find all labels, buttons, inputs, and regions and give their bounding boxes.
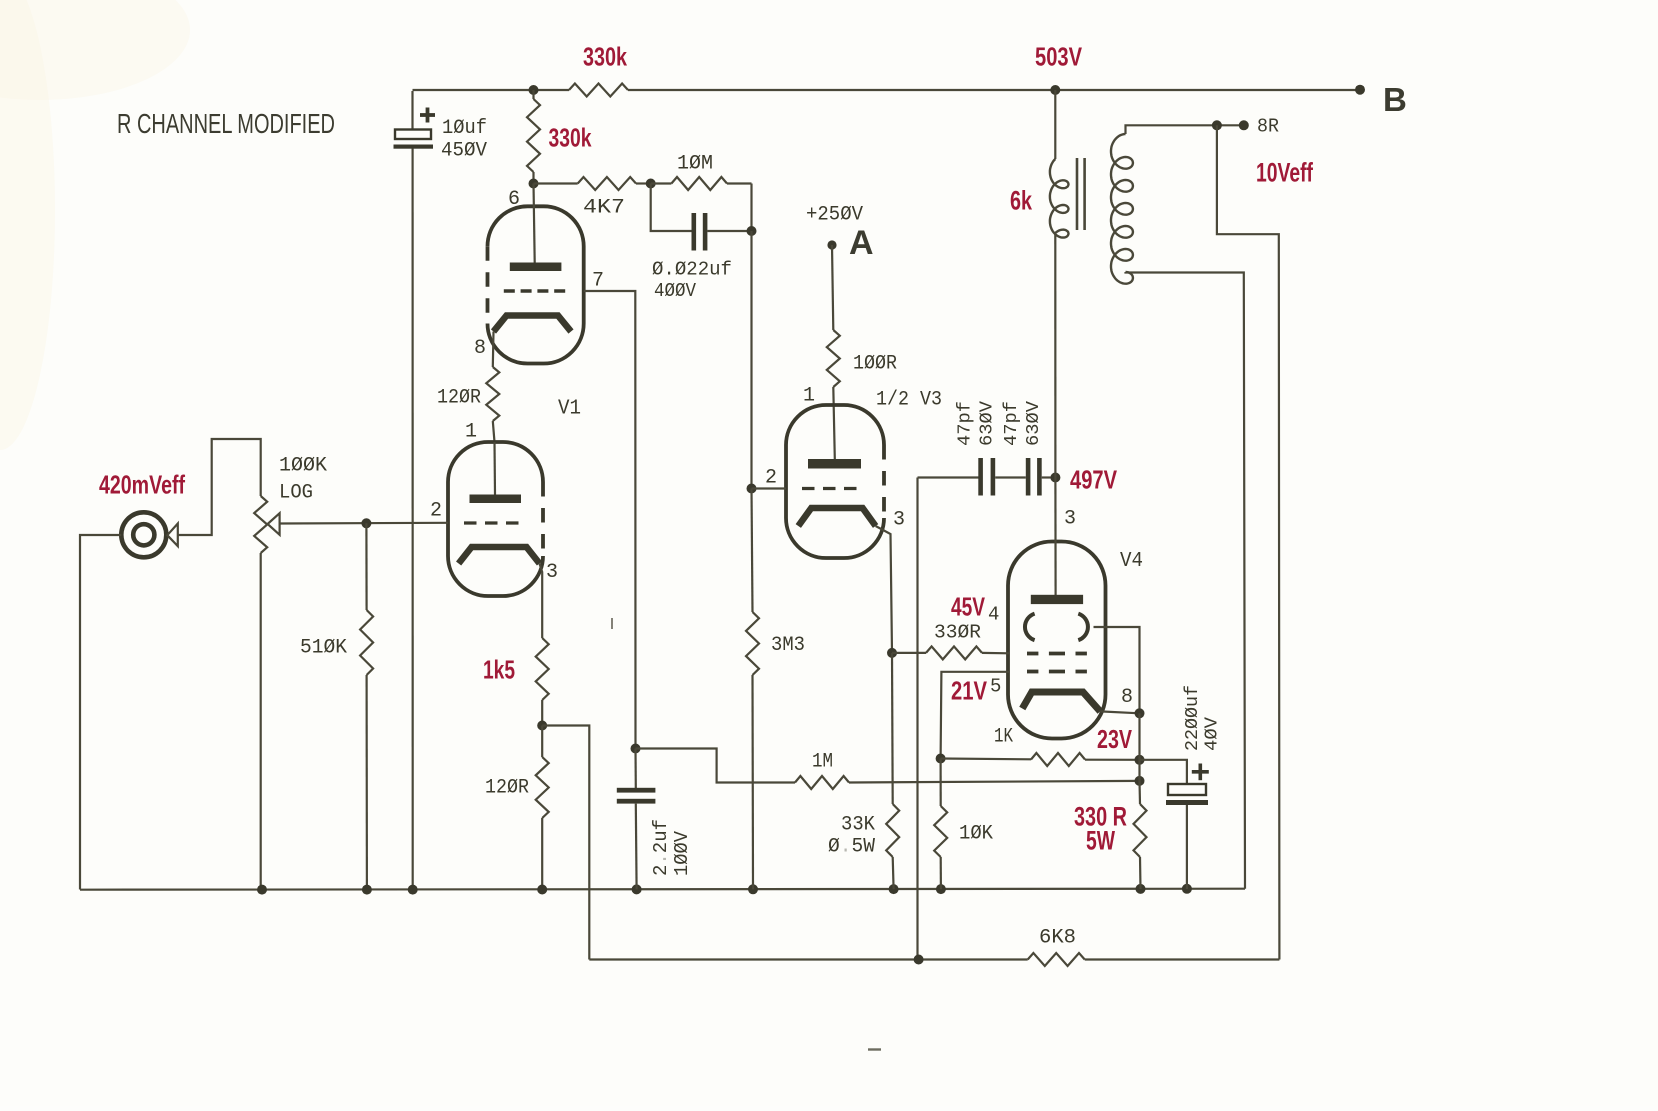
tube V1 lower triode envelope xyxy=(448,442,543,596)
svg-text:1Øuf: 1Øuf xyxy=(442,117,487,140)
svg-text:4ØV: 4ØV xyxy=(1202,717,1223,751)
node junction V3 grid / 3M3 xyxy=(747,484,757,494)
resistor R 330R xyxy=(892,652,926,654)
node junction 6K8 / 47pf leg xyxy=(914,955,924,965)
resistor R 1M xyxy=(636,749,796,783)
wire V4 grid2 pin 5 to 1K node xyxy=(941,672,1009,759)
wire secondary top to 8R taps xyxy=(1126,125,1244,134)
tube V3 envelope xyxy=(786,405,884,558)
svg-text:420mVeff: 420mVeff xyxy=(99,470,185,500)
wire input jack to ground rail (left) xyxy=(80,535,121,890)
svg-text:1: 1 xyxy=(803,385,815,408)
transformer primary 6k winding xyxy=(1054,90,1056,159)
svg-text:330k: 330k xyxy=(583,42,627,72)
svg-text:2: 2 xyxy=(765,467,777,490)
svg-text:1/2 V3: 1/2 V3 xyxy=(876,389,942,412)
tube V1 upper anode plate pin 6 xyxy=(534,184,535,263)
wire V4 beam plates to cathode node xyxy=(1094,627,1140,713)
potentiometer 100K LOG xyxy=(254,496,267,553)
resistor R 10K xyxy=(939,759,941,807)
node 8R terminal xyxy=(1239,120,1249,130)
wire feedback from 1k5 node to 6K8 line xyxy=(542,726,589,960)
wire 47pf left leg down to 6K8 feedback node xyxy=(916,478,918,960)
svg-text:3: 3 xyxy=(893,509,905,532)
svg-text:33ØR: 33ØR xyxy=(934,622,981,644)
resistor R 330k horizontal xyxy=(569,84,628,97)
svg-text:1: 1 xyxy=(465,421,477,444)
node junction 4K7/10M/0.022uf xyxy=(646,179,656,189)
resistor R 330k vertical xyxy=(532,90,534,99)
tube V1 upper triode envelope xyxy=(488,206,584,363)
tube V1 upper grid pin 7 xyxy=(504,289,566,292)
svg-text:5W: 5W xyxy=(1086,826,1115,856)
wire V3 grid to node xyxy=(752,487,787,489)
wire from top rail corner down to C 10uf xyxy=(411,91,413,130)
resistor R 330R 5W xyxy=(1138,781,1141,804)
node 8R tap junction xyxy=(1212,120,1222,130)
wire from 0.022uf node down to V3 grid node xyxy=(750,231,752,489)
ground rail junction dots xyxy=(257,885,267,895)
wire V4 cathode pin 8 lead xyxy=(1100,711,1139,713)
svg-text:503V: 503V xyxy=(1035,42,1082,72)
svg-text:1ØM: 1ØM xyxy=(677,153,713,176)
node junction 21V/1K/10K xyxy=(936,754,946,764)
svg-text:6k: 6k xyxy=(1010,186,1033,216)
resistor R 3M3 xyxy=(752,489,753,613)
svg-text:1k5: 1k5 xyxy=(483,655,515,685)
resistor R 510K xyxy=(365,523,367,610)
svg-text:1K: 1K xyxy=(994,726,1013,749)
tube V1 lower anode plate pin 1 xyxy=(493,442,496,495)
node junction 1K/V4 cathode/2200uf xyxy=(1135,755,1145,765)
svg-text:Ø.Ø22uf: Ø.Ø22uf xyxy=(652,259,732,281)
tube V4 grid 1 pin 4 dashes xyxy=(1027,652,1038,656)
svg-text:6K8: 6K8 xyxy=(1039,927,1076,950)
wire 10M right end down xyxy=(750,184,752,232)
svg-text:45V: 45V xyxy=(951,592,985,622)
wire 0.022uf left leg xyxy=(651,184,692,232)
wire B+ top rail xyxy=(413,89,570,91)
transformer secondary winding xyxy=(1111,134,1133,284)
svg-text:R CHANNEL MODIFIED: R CHANNEL MODIFIED xyxy=(117,108,335,139)
svg-text:23V: 23V xyxy=(1097,724,1132,754)
node junction 330k/4K7/V1 pin6 xyxy=(529,179,539,189)
input series arrow triangle xyxy=(167,524,178,547)
svg-text:330k: 330k xyxy=(549,123,592,153)
svg-text:1ØØK: 1ØØK xyxy=(279,455,327,478)
tube V4 anode plate xyxy=(1031,595,1083,604)
node junction 497V (V4 anode) xyxy=(1050,473,1060,483)
node junction V4 cathode / 23V xyxy=(1135,708,1145,718)
resistor R 33K xyxy=(891,653,894,804)
tube V1 lower grid pin 2 xyxy=(464,521,526,524)
tube V4 envelope xyxy=(1008,542,1106,739)
resistor R 6K8 feedback xyxy=(589,958,1027,960)
resistor R 4K7 xyxy=(534,182,578,184)
svg-text:4: 4 xyxy=(988,604,999,626)
wire V1 upper cathode lead to 120R xyxy=(492,332,495,368)
wire V4 cathode node down xyxy=(1138,713,1140,781)
node junction wiper/510K xyxy=(361,518,371,528)
capacitor C 47pf 630V (left) xyxy=(918,476,979,478)
wire 8R tap down and over to feedback xyxy=(1217,125,1280,959)
capacitor C 0.022uf 400V xyxy=(692,213,697,251)
tube V4 beam plate right xyxy=(1078,614,1088,641)
svg-text:A: A xyxy=(849,224,874,262)
tube V4 cathode xyxy=(1022,692,1100,711)
wire V3 cathode pin3 down xyxy=(876,526,892,653)
svg-text:3: 3 xyxy=(546,561,558,584)
capacitor C 10uf 450V electrolytic xyxy=(420,113,435,117)
svg-text:8: 8 xyxy=(474,337,486,360)
tube V3 cathode pin 3 xyxy=(798,508,875,526)
svg-text:45ØV: 45ØV xyxy=(441,140,487,163)
resistor R 120R upper xyxy=(486,367,499,421)
node B+ junction at 330k xyxy=(529,85,539,95)
node B terminal xyxy=(1355,85,1365,95)
svg-text:8R: 8R xyxy=(1257,116,1279,138)
node junction V3 cathode / 330R xyxy=(887,648,897,658)
node A +250V terminal xyxy=(827,240,836,249)
wire left rail from C 10uf to ground rail xyxy=(412,149,414,890)
node junction 1k5/120R/feedback xyxy=(537,721,547,731)
transformer core lines xyxy=(1076,158,1079,230)
wire V1 upper grid pin7 to right and down xyxy=(584,291,636,749)
wire V1 lower cathode pin3 lead xyxy=(540,564,543,639)
svg-text:10Veff: 10Veff xyxy=(1256,158,1314,188)
capacitor C 47pf 630V (right) xyxy=(995,476,1026,478)
svg-text:7: 7 xyxy=(592,270,604,293)
capacitor C 2.2uf 100V xyxy=(634,749,636,789)
svg-text:4K7: 4K7 xyxy=(583,197,625,220)
tube V1 upper cathode pin 8 xyxy=(494,316,572,332)
wire secondary bottom return to ground rail xyxy=(1126,272,1246,889)
svg-text:33K: 33K xyxy=(841,814,875,837)
svg-text:21V: 21V xyxy=(951,676,988,706)
wire input to pot top xyxy=(178,439,261,535)
svg-text:2: 2 xyxy=(430,500,442,523)
svg-text:63ØV: 63ØV xyxy=(977,401,998,446)
svg-text:22ØØuf: 22ØØuf xyxy=(1182,685,1203,751)
svg-text:497V: 497V xyxy=(1070,465,1117,495)
resistor R 1K xyxy=(941,757,1031,760)
svg-text:3M3: 3M3 xyxy=(771,634,805,657)
svg-text:1ØØR: 1ØØR xyxy=(853,353,897,376)
svg-text:6: 6 xyxy=(508,188,520,211)
input jack connector (420mVeff) xyxy=(121,512,166,557)
svg-text:51ØK: 51ØK xyxy=(300,637,347,660)
resistor R 100R xyxy=(832,245,833,330)
resistor R 1k5 xyxy=(536,638,549,700)
node junction 0.022uf/V3 grid line xyxy=(747,226,757,236)
node junction 1M / 330R 5W xyxy=(1135,776,1145,786)
wire ground rail xyxy=(80,889,1245,890)
node B+ junction at output transformer xyxy=(1050,85,1060,95)
svg-text:47pf: 47pf xyxy=(1001,401,1022,446)
svg-text:V4: V4 xyxy=(1120,550,1143,573)
svg-text:12ØR: 12ØR xyxy=(485,777,529,800)
svg-text:3: 3 xyxy=(1064,508,1076,531)
tube V1 lower cathode pin 3 xyxy=(459,547,540,564)
tube V4 grid 2 pin 5 dashes xyxy=(1027,670,1038,674)
wire pot wiper to V1 grid pin2 xyxy=(280,522,448,525)
svg-text:Ø.5W: Ø.5W xyxy=(828,836,876,859)
tube V3 grid pin 2 xyxy=(802,487,865,490)
capacitor C 2200uf 40V electrolytic xyxy=(1140,760,1187,784)
tube V4 beam plate left xyxy=(1025,614,1035,641)
svg-text:1ØØV: 1ØØV xyxy=(671,830,693,876)
node junction V1 pin7 line / 2.2uf / 1M xyxy=(631,744,641,754)
svg-text:V1: V1 xyxy=(558,398,581,421)
tube V3 anode plate pin 1 xyxy=(808,459,861,469)
svg-text:B: B xyxy=(1383,81,1407,118)
artifact tick marks xyxy=(611,618,613,629)
svg-text:2.2uf: 2.2uf xyxy=(650,819,672,876)
svg-text:5: 5 xyxy=(990,676,1001,698)
svg-text:12ØR: 12ØR xyxy=(437,387,481,410)
svg-text:63ØV: 63ØV xyxy=(1023,401,1044,446)
svg-text:4ØØV: 4ØØV xyxy=(654,280,697,302)
resistor R 10M xyxy=(651,182,672,184)
svg-text:1ØK: 1ØK xyxy=(959,823,993,846)
resistor R 120R lower xyxy=(541,726,543,758)
svg-text:1M: 1M xyxy=(812,751,833,774)
svg-text:8: 8 xyxy=(1121,686,1133,709)
svg-text:LOG: LOG xyxy=(279,482,313,505)
svg-text:47pf: 47pf xyxy=(955,401,976,446)
wire V4 anode pin 3 from 497V node xyxy=(1054,478,1056,596)
